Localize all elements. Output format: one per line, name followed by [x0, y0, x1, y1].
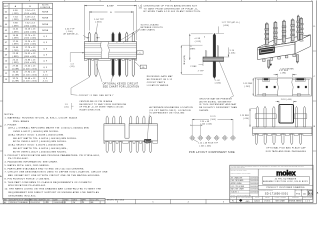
svg-text:IS TOOL DEPENDENT AND MAY: IS TOOL DEPENDENT AND MAY	[199, 103, 237, 106]
svg-text:(.600 ±.005): (.600 ±.005)	[24, 44, 37, 46]
svg-text:FOR TAPE AND REEL PACKAGING: FOR TAPE AND REEL PACKAGING	[266, 150, 307, 153]
svg-text:(1.089): (1.089)	[12, 68, 19, 70]
svg-text:IS DEPENDENT ON TOOLING: IS DEPENDENT ON TOOLING	[149, 113, 184, 115]
label 1.34 TYP	[94, 19, 104, 32]
svg-text:7.62 ±.13: 7.62 ±.13	[25, 22, 35, 24]
svg-text:9. THIS PART CONFORMS TO CLAS: 9. THIS PART CONFORMS TO CLASS B REQUIRE…	[5, 181, 93, 184]
svg-text:OVER 0.00127 (.000050) MIN NIC: OVER 0.00127 (.000050) MIN NICKEL.	[13, 131, 60, 133]
svg-text:22.86 ±.13: 22.86 ±.13	[25, 59, 36, 61]
svg-text:ASSEMBLY FRICTION LOCK, SOLID: ASSEMBLY FRICTION LOCK, SOLID BODY	[263, 180, 309, 183]
svg-text:10.16 ±.13: 10.16 ±.13	[25, 29, 36, 31]
svg-text:SLOTS LOCATED: SLOTS LOCATED	[141, 23, 160, 26]
svg-text:EC NO: EC NO	[45, 200, 50, 202]
svg-text:2009/05/08: 2009/05/08	[250, 191, 258, 193]
svg-text:2009/05/08: 2009/05/08	[54, 202, 63, 204]
svg-text:2009/05/08: 2009/05/08	[250, 183, 258, 185]
note: centerline of pin (below front view)	[64, 100, 127, 111]
svg-text:BOTH OVER 0.00127 (.000050) MI: BOTH OVER 0.00127 (.000050) MIN NICKEL.	[13, 141, 67, 143]
dimension B	[89, 11, 133, 30]
svg-text:(REF): (REF)	[190, 48, 196, 50]
svg-text:(BOTH SIDES). GEOMETRY: (BOTH SIDES). GEOMETRY	[199, 101, 232, 103]
svg-text:4, 9: 4, 9	[43, 42, 47, 44]
svg-text:OF PIN AT -D- BY MORE THAN 0.1: OF PIN AT -D- BY MORE THAN 0.13/.005	[79, 106, 123, 109]
svg-text:SPECIFICATION PS-45499-002.: SPECIFICATION PS-45499-002.	[8, 184, 46, 187]
svg-text:MAY OR MAY NOT LINE UP WITH CI: MAY OR MAY NOT LINE UP WITH CIRCUIT ONE …	[8, 174, 100, 177]
svg-text:BY MORE THAN 0.13/.005 IN ANY: BY MORE THAN 0.13/.005 IN ANY DIRECTION.	[144, 10, 202, 13]
svg-text:EC NO: US-2009-1234: EC NO: US-2009-1234	[231, 170, 247, 172]
svg-text:SHEET NUMBER: SHEET NUMBER	[303, 197, 313, 199]
note: groove may be present	[199, 97, 237, 112]
svg-text:2009/05/08: 2009/05/08	[250, 177, 258, 179]
svg-text:SHOWN NOT TO VARY FROM CENTERL: SHOWN NOT TO VARY FROM CENTERLINE	[79, 103, 127, 106]
svg-text:CENTERLINE OF PIN IN AREA SHOW: CENTERLINE OF PIN IN AREA SHOWN NOT	[144, 4, 198, 7]
svg-text:12.70 ±.13: 12.70 ±.13	[25, 35, 36, 37]
svg-text:(.389): (.389)	[12, 25, 18, 27]
svg-text:20.32 ±.13: 20.32 ±.13	[25, 53, 36, 55]
svg-text:20.04: 20.04	[13, 47, 19, 49]
svg-text:SERIES: SERIES	[265, 197, 270, 199]
svg-text:11.94 (.470): 11.94 (.470)	[184, 55, 186, 64]
svg-text:7. CIRCUIT ONE DESIGNATION IS: 7. CIRCUIT ONE DESIGNATION IS USED TO DE…	[5, 171, 108, 174]
label CIRCUIT #1 REF	[71, 77, 114, 97]
svg-text:4, 9: 4, 9	[43, 72, 47, 74]
svg-text:12.42: 12.42	[13, 29, 19, 31]
svg-text:2 REF: 2 REF	[190, 66, 197, 68]
svg-text:(.300 ±.005): (.300 ±.005)	[24, 25, 37, 27]
svg-text:2009/05/08: 2009/05/08	[250, 189, 258, 191]
svg-text:(187-) = OVERALL REFLOWED MATT: (187-) = OVERALL REFLOWED MATTE TIN: 0.0…	[8, 127, 90, 130]
svg-text:BE SLIGHTLY DIFFERENT THAN: BE SLIGHTLY DIFFERENT THAN	[199, 106, 237, 109]
svg-text:12.70: 12.70	[210, 116, 215, 118]
svg-text:(1.100 ±.005): (1.100 ±.005)	[23, 74, 37, 76]
svg-text:A: A	[0, 175, 2, 178]
svg-text:03: 03	[5, 18, 7, 20]
svg-text:CENTERLINE OF PIN IN AREA: CENTERLINE OF PIN IN AREA	[79, 100, 112, 103]
svg-text:02: 02	[5, 11, 7, 13]
svg-text:05: 05	[5, 30, 7, 32]
svg-text:(SEE CHART): (SEE CHART)	[141, 29, 156, 32]
svg-text:7.34: 7.34	[13, 16, 17, 18]
svg-text:MB: MB	[91, 202, 94, 204]
svg-text:IN ANY DIRECTION.: IN ANY DIRECTION.	[79, 108, 101, 111]
datum flag B	[135, 62, 146, 69]
svg-text:(.090): (.090)	[243, 118, 249, 120]
label OPTIONAL KEYED CIRCUIT	[96, 64, 139, 88]
svg-text:(.889): (.889)	[12, 56, 18, 58]
svg-text:(.040): (.040)	[215, 82, 221, 84]
svg-text:OPTIONAL PICK AND PLACE CAP: OPTIONAL PICK AND PLACE CAP	[266, 147, 306, 150]
svg-text:BE PRESENT ON 2-12: BE PRESENT ON 2-12	[147, 79, 173, 81]
svg-text:14.96: 14.96	[13, 35, 19, 37]
label SLOTS LOCATED BETWEEN CIRCUITS	[116, 23, 163, 42]
svg-text:42 PIN, SQ HEADER: 42 PIN, SQ HEADER	[275, 177, 297, 180]
svg-text:(.201): (.201)	[229, 53, 235, 55]
svg-text:08: 08	[5, 48, 7, 50]
svg-text:(1.000 ±.005): (1.000 ±.005)	[23, 68, 37, 70]
svg-text:NONE: NONE	[42, 11, 49, 13]
svg-text:(.989): (.989)	[12, 62, 18, 64]
isometric view of header	[258, 15, 311, 71]
svg-text:SELECT MATTE TIN: 0.00254 (.00: SELECT MATTE TIN: 0.00254 (.000100) MIN …	[13, 137, 77, 140]
svg-text:2009/05/08: 2009/05/08	[250, 180, 258, 182]
svg-text:0: 0	[204, 37, 205, 39]
svg-text:(21B-) SELECT GOLD: 0.00076 (.: (21B-) SELECT GOLD: 0.00076 (.000030) MI…	[8, 145, 64, 147]
svg-text:(.05): (.05)	[70, 66, 75, 68]
svg-text:RECESSED GATE MAY: RECESSED GATE MAY	[147, 75, 173, 78]
svg-text:PCB LAYOUT COMPONENT SIDE: PCB LAYOUT COMPONENT SIDE	[189, 151, 235, 154]
circuit dimension table	[3, 3, 52, 82]
label 2.54 TYP AT DATUM	[64, 28, 100, 38]
svg-text:4, 9: 4, 9	[43, 36, 47, 38]
svg-text:(.100 ±.005): (.100 ±.005)	[24, 13, 37, 15]
svg-text:4, 9: 4, 9	[43, 55, 47, 57]
svg-text:10. THE PARTS LISTED ON THIS D: 10. THE PARTS LISTED ON THIS DRAWING ARE…	[5, 188, 102, 191]
svg-text:PS-171856-0002.: PS-171856-0002.	[8, 158, 29, 160]
svg-text:LOCATION VARIES: LOCATION VARIES	[147, 84, 169, 87]
svg-text:REV: REV	[4, 200, 7, 202]
svg-text:(.189): (.189)	[12, 13, 18, 15]
svg-text:32.74: 32.74	[13, 78, 19, 80]
svg-text:4, 9: 4, 9	[43, 78, 47, 80]
svg-text:12: 12	[5, 73, 7, 75]
svg-text:PSD: PSD	[296, 194, 301, 196]
svg-text:15.24 ±.13: 15.24 ±.13	[25, 41, 36, 43]
svg-text:P1: P1	[232, 200, 234, 202]
svg-text:JW: JW	[73, 202, 76, 204]
side view overall height dim	[181, 45, 203, 74]
svg-text:D: D	[314, 26, 316, 28]
svg-text:DOC CTRL M.BEN: DOC CTRL M.BEN	[231, 186, 244, 188]
svg-text:25.12: 25.12	[13, 59, 19, 61]
svg-text:(.900 ±.005): (.900 ±.005)	[24, 62, 37, 64]
svg-text:4, 9: 4, 9	[43, 67, 47, 69]
svg-text:4. PACKAGING INFORMATION: SEE: 4. PACKAGING INFORMATION: SEE CHART.	[5, 161, 59, 164]
svg-text:07: 07	[5, 42, 7, 44]
svg-text:4, 9: 4, 9	[43, 48, 47, 50]
svg-text:8. PIN PUSHOUT FORCE: 2 LBS M: 8. PIN PUSHOUT FORCE: 2 LBS MIN.	[5, 178, 51, 180]
svg-text:SEE CHART FOR LOCATION: SEE CHART FOR LOCATION	[103, 85, 140, 88]
svg-text:17.78 ±.13: 17.78 ±.13	[25, 47, 36, 49]
svg-text:PINS: BRASS: PINS: BRASS	[13, 120, 30, 123]
svg-text:(.196): (.196)	[280, 73, 286, 75]
svg-text:-C-: -C-	[138, 53, 141, 55]
svg-text:(.700 ±.005): (.700 ±.005)	[24, 50, 37, 52]
dimension A REF	[84, 4, 136, 40]
svg-text:1. MATERIAL: HOUSING: NYLON,: 1. MATERIAL: HOUSING: NYLON, UL 94V-1, C…	[5, 117, 78, 120]
svg-text:0901: 0901	[45, 202, 49, 204]
svg-text:5. MATES WITH: 6443, 2695 SER: 5. MATES WITH: 6443, 2695 SERIES.	[5, 164, 50, 167]
svg-text:17.50: 17.50	[13, 41, 19, 43]
svg-text:TO VARY FROM CENTERLINE OF PIN: TO VARY FROM CENTERLINE OF PIN AT -D-	[144, 7, 199, 10]
svg-text:2.54 ±.13: 2.54 ±.13	[25, 10, 35, 12]
svg-text:1.27 TYP (AT -D-): 1.27 TYP (AT -D-)	[222, 21, 240, 24]
svg-text:CUSTOMER: CUSTOMER	[292, 197, 299, 199]
svg-text:9.88: 9.88	[13, 22, 17, 24]
svg-text:ALTERNATE ENGRAVING LOCATION: ALTERNATE ENGRAVING LOCATION	[149, 106, 193, 109]
svg-text:molex: molex	[276, 168, 296, 177]
svg-text:(.489): (.489)	[12, 31, 18, 33]
svg-text:(.053): (.053)	[95, 22, 102, 24]
svg-text:22.58: 22.58	[13, 53, 19, 55]
svg-text:SELECT MATTE TIN: 0.00254 (.00: SELECT MATTE TIN: 0.00254 (.000100) MIN.…	[13, 147, 68, 150]
svg-text:SD-171856-0001: SD-171856-0001	[265, 193, 289, 196]
svg-text:(1.289): (1.289)	[12, 81, 19, 83]
svg-text:(20B-) SELECT GOLD: 0.00038 (.: (20B-) SELECT GOLD: 0.00038 (.000015) MI…	[8, 134, 64, 136]
svg-text:C: C	[0, 76, 2, 78]
svg-text:(.689): (.689)	[12, 44, 18, 46]
svg-text:NONE: NONE	[42, 24, 49, 26]
svg-text:D: D	[0, 26, 2, 28]
svg-text:1 of 3: 1 of 3	[305, 200, 310, 202]
revision strip	[3, 198, 124, 204]
svg-text:(1.189): (1.189)	[12, 74, 19, 76]
svg-text:(.045 ±.003): (.045 ±.003)	[200, 145, 212, 147]
connector front view	[84, 32, 136, 76]
svg-text:CIRCUIT #1 REF. SEE NOTE 7: CIRCUIT #1 REF. SEE NOTE 7	[79, 95, 114, 97]
svg-text:.7 TYP: .7 TYP	[197, 70, 204, 72]
svg-text:(.05): (.05)	[64, 107, 69, 109]
svg-text:(.100 ±.003): (.100 ±.003)	[200, 123, 212, 125]
svg-text:27.94 ±.13: 27.94 ±.13	[25, 72, 36, 74]
svg-text:11: 11	[5, 67, 7, 69]
svg-text:(.200 ±.005): (.200 ±.005)	[24, 19, 37, 21]
svg-text:06: 06	[5, 36, 7, 38]
svg-text:(.400 ±.005): (.400 ±.005)	[24, 31, 37, 33]
svg-text:27.66: 27.66	[13, 66, 19, 68]
top view with break	[243, 61, 311, 96]
svg-text:4, 9: 4, 9	[43, 61, 47, 63]
svg-text:3. PRODUCT SPECIFICATION AND: 3. PRODUCT SPECIFICATION AND PROCESS PAR…	[5, 154, 101, 157]
svg-text:(.800 ±.005): (.800 ±.005)	[24, 56, 37, 58]
svg-text:(13 CKT PARTS ONLY). LOCATION: (13 CKT PARTS ONLY). LOCATION	[149, 109, 191, 112]
note: centerline of pin (top right)	[138, 4, 201, 13]
svg-text:REVISED UNDER: REVISED UNDER	[30, 200, 43, 202]
svg-text:09: 09	[5, 55, 7, 57]
svg-text:DESCRIBED IN UL94C.: DESCRIBED IN UL94C.	[9, 195, 37, 197]
svg-text:4, 15: 4, 15	[43, 74, 48, 76]
svg-text:1.14 ±.08 HOLE TYP: 1.14 ±.08 HOLE TYP	[198, 143, 218, 145]
svg-text:11.18 (.440): 11.18 (.440)	[281, 99, 292, 101]
svg-text:NOTES:: NOTES:	[5, 114, 15, 116]
front view with pick and place cap	[240, 99, 312, 153]
note: recessed gate	[147, 75, 173, 87]
svg-text:2. FINISH:: 2. FINISH:	[5, 124, 18, 126]
svg-text:171856: 171856	[264, 200, 270, 202]
pcb layout pattern	[189, 116, 236, 154]
svg-text:5.08 ±.13: 5.08 ±.13	[25, 16, 35, 18]
svg-text:409: 409	[246, 201, 250, 203]
svg-text:30.20: 30.20	[13, 72, 19, 74]
svg-text:25.40 ±.13: 25.40 ±.13	[25, 66, 36, 68]
svg-text:10: 10	[5, 61, 7, 63]
svg-text:CKT: CKT	[4, 6, 8, 8]
svg-text:2009/05/08: 2009/05/08	[250, 186, 258, 188]
svg-text:(.050): (.050)	[223, 25, 229, 27]
svg-text:(.589): (.589)	[12, 38, 18, 40]
svg-text:B: B	[314, 126, 316, 128]
svg-text:.05: .05	[138, 8, 141, 10]
svg-text:4, 15: 4, 15	[43, 81, 48, 83]
svg-text:A REF: A REF	[107, 4, 115, 7]
svg-text:(.500): (.500)	[210, 119, 216, 121]
svg-text:4.80: 4.80	[13, 10, 17, 12]
svg-text:(.789): (.789)	[12, 50, 18, 52]
svg-text:A: A	[317, 191, 319, 194]
svg-text:6. PARTS ARE STACKABLE END TO: 6. PARTS ARE STACKABLE END TO END ON 2.5…	[5, 167, 85, 170]
rear view of connector	[104, 115, 158, 153]
title block	[230, 165, 313, 203]
svg-text:DS: DS	[82, 202, 84, 204]
svg-text:B: B	[0, 126, 2, 128]
svg-text:001: 001	[303, 194, 306, 196]
svg-text:13: 13	[5, 79, 7, 81]
svg-text:30.48 ±.13: 30.48 ±.13	[25, 78, 36, 80]
svg-text:US-091234: US-091234	[30, 202, 39, 204]
svg-text:(.202): (.202)	[244, 86, 250, 88]
svg-text:NONE: NONE	[42, 18, 49, 20]
svg-text:MODEL SN-71856: MODEL SN-71856	[107, 200, 124, 202]
svg-text:OPTIONAL KEYED CIRCUIT: OPTIONAL KEYED CIRCUIT	[103, 82, 139, 85]
svg-text:-B-: -B-	[142, 67, 145, 69]
svg-text:NONE: NONE	[42, 30, 49, 32]
side view dimensions	[189, 21, 240, 97]
side view: pin section	[203, 33, 224, 78]
svg-text:04: 04	[5, 24, 7, 26]
svg-text:SHOWN.: SHOWN.	[199, 110, 209, 112]
svg-text:BOTH OVER 0.00127 (.000050) MI: BOTH OVER 0.00127 (.000050) MIN NICKEL.	[13, 151, 67, 153]
svg-text:DOC CTRL: DOC CTRL	[91, 200, 99, 202]
svg-text:REQUIREMENT FOR DIRECT SUPPORT: REQUIREMENT FOR DIRECT SUPPORT OF UNINSU…	[9, 191, 100, 194]
notes list	[5, 114, 108, 197]
svg-text:AT DATUM -D-: AT DATUM -D-	[64, 33, 79, 36]
svg-text:DRWN: DRWN	[64, 200, 69, 202]
svg-text:(1.200 ±.005): (1.200 ±.005)	[23, 81, 37, 83]
note: alternate engraving location	[149, 106, 193, 115]
datum flag C	[137, 51, 144, 55]
svg-text:CHKD: CHKD	[73, 200, 78, 202]
svg-text:SLOTS: SLOTS	[42, 5, 49, 7]
svg-text:C: C	[314, 76, 316, 78]
svg-text:GROOVE MAY BE PRESENT: GROOVE MAY BE PRESENT	[199, 97, 232, 100]
svg-text:PRODUCT CUSTOMER DRAWING: PRODUCT CUSTOMER DRAWING	[266, 186, 304, 189]
svg-text:(.015): (.015)	[195, 41, 201, 43]
svg-text:CIRCUIT PARTS: CIRCUIT PARTS	[147, 81, 166, 84]
dimension 1.3 left of body	[70, 52, 85, 68]
svg-text:(.500 ±.005): (.500 ±.005)	[24, 38, 37, 40]
svg-text:(.289): (.289)	[12, 19, 18, 21]
